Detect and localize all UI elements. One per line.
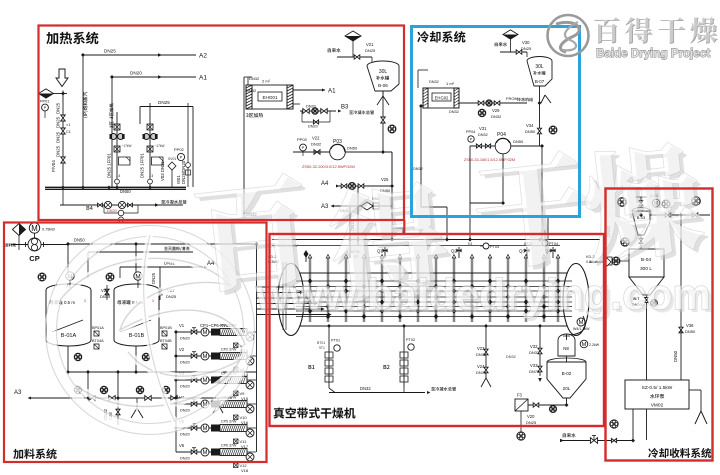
feed inlet rod xyxy=(283,250,309,330)
svg-text:PT01: PT01 xyxy=(331,339,340,343)
bank left bus xyxy=(175,332,177,452)
svg-text:V32: V32 xyxy=(530,344,538,349)
riser crossings into dryer xyxy=(350,206,392,258)
svg-text:DN25: DN25 xyxy=(104,49,116,54)
svg-text:DN32: DN32 xyxy=(246,88,257,93)
riser x109 xyxy=(111,77,113,187)
branch B1 xyxy=(309,326,341,393)
title heating 加热系统 xyxy=(46,32,58,44)
svg-text:DN32: DN32 xyxy=(478,133,488,137)
svg-text:DN20: DN20 xyxy=(180,361,190,365)
hollow down arrow xyxy=(56,69,68,87)
heating right risers xyxy=(350,152,392,239)
svg-text:Q1: Q1 xyxy=(377,249,383,254)
svg-text:DN50: DN50 xyxy=(347,146,358,151)
valve column x63 xyxy=(51,91,71,188)
svg-text:DN50: DN50 xyxy=(74,238,85,243)
Y vent feed xyxy=(213,398,223,413)
B-04 bottom xyxy=(632,295,658,440)
svg-text:E4: E4 xyxy=(468,242,472,246)
valve V29 xyxy=(478,108,502,119)
dryer drain line xyxy=(329,386,456,394)
svg-text:C1: C1 xyxy=(66,130,71,134)
metering pump row CP5 xyxy=(176,419,256,449)
svg-text:V24: V24 xyxy=(477,364,485,369)
svg-text:A3: A3 xyxy=(14,390,22,396)
svg-text:PT03: PT03 xyxy=(490,245,499,249)
svg-text:DN20: DN20 xyxy=(180,385,190,389)
label (IP)饱和蒸汽 vertical xyxy=(83,92,88,118)
svg-text:3: 3 xyxy=(152,299,154,303)
drum top instrument labels xyxy=(351,240,558,259)
svg-text:PP02: PP02 xyxy=(174,147,185,152)
svg-text:BT01: BT01 xyxy=(317,341,325,345)
svg-text:BP01A: BP01A xyxy=(92,326,104,330)
dryer top manifold lines xyxy=(272,240,600,246)
svg-text:DN25: DN25 xyxy=(365,48,376,53)
svg-text:CP: CP xyxy=(29,254,39,263)
svg-text:VM02: VM02 xyxy=(651,403,664,409)
valve V36 xyxy=(673,323,696,380)
svg-text:V30: V30 xyxy=(522,40,530,45)
svg-text:DN32: DN32 xyxy=(491,114,502,119)
svg-text:DN32: DN32 xyxy=(429,80,439,84)
riser x83 xyxy=(82,55,84,187)
svg-text:30L: 30L xyxy=(535,64,544,70)
discharge arc to N8 xyxy=(570,316,585,335)
metering pump row CP1 xyxy=(176,323,256,353)
heating-dryer red connector stub xyxy=(403,220,405,235)
svg-text:CP2 37W: CP2 37W xyxy=(221,348,237,352)
tank B-01A xyxy=(38,272,91,346)
svg-text:P04: P04 xyxy=(497,132,506,138)
svg-text:×1: ×1 xyxy=(66,123,70,127)
svg-text:P: P xyxy=(180,155,183,160)
svg-text:M: M xyxy=(582,342,587,348)
svg-text:M: M xyxy=(203,450,208,456)
drum motor xyxy=(573,318,590,331)
svg-text:DN25 1FP01: DN25 1FP01 xyxy=(107,153,112,178)
svg-text:DN25: DN25 xyxy=(56,131,61,143)
tank B drain xyxy=(136,346,150,372)
watermark emblem circle xyxy=(46,226,255,435)
tank A drain xyxy=(68,346,82,372)
svg-text:DN20: DN20 xyxy=(180,433,190,437)
svg-text:DN25 1FP01: DN25 1FP01 xyxy=(140,153,145,178)
metering pump row CP4 xyxy=(176,395,256,425)
EHG02 heat exchanger xyxy=(423,80,459,114)
svg-text:W4/1.1kW: W4/1.1kW xyxy=(573,327,590,331)
svg-text:V20: V20 xyxy=(527,414,535,419)
svg-text:A1: A1 xyxy=(328,88,336,95)
EHG02 piping xyxy=(413,70,447,239)
svg-text:DN25: DN25 xyxy=(521,46,532,51)
svg-text:PP04: PP04 xyxy=(466,130,475,134)
EHG01 heat exchanger xyxy=(246,79,293,118)
cooling system box xyxy=(412,27,580,217)
svg-text:DN50: DN50 xyxy=(120,189,131,194)
loop B3 xyxy=(293,104,374,129)
B-03 top fittings xyxy=(618,194,701,208)
gauge PP03 and valve V22 xyxy=(297,136,322,157)
feeding system box xyxy=(4,223,267,463)
hopper B-02 xyxy=(547,356,586,403)
svg-text:BP01B: BP01B xyxy=(160,326,172,330)
gap fitting to B-04 xyxy=(589,258,611,266)
svg-text:BT04B: BT04B xyxy=(160,339,172,343)
metering pump row CP3 xyxy=(176,371,256,401)
svg-text:V34: V34 xyxy=(526,123,534,128)
drum stems Q1-Q4 xyxy=(377,247,556,258)
A3 line heating xyxy=(321,197,392,213)
svg-text:M: M xyxy=(135,273,140,280)
steam supply diamond PP01 xyxy=(39,89,68,118)
svg-text:ZS50-33-160/1.5/12.5MP/32M: ZS50-33-160/1.5/12.5MP/32M xyxy=(464,158,515,162)
pipe A1 from EHG01 xyxy=(293,88,336,95)
svg-text:B-06: B-06 xyxy=(378,83,388,88)
svg-text:DN20: DN20 xyxy=(180,457,190,461)
title receiving 冷却收料系统 xyxy=(648,448,658,458)
A4 line heating xyxy=(321,177,392,193)
logo wordmark 百得干燥 xyxy=(594,17,619,43)
tank B-01B xyxy=(106,272,159,346)
svg-text:SZ-0.5/ 1.5kW: SZ-0.5/ 1.5kW xyxy=(642,385,673,391)
title cooling 冷却系统 xyxy=(417,31,429,43)
svg-text:EHG02: EHG02 xyxy=(435,96,449,101)
heater group 2 xyxy=(140,103,165,187)
A3 feed line xyxy=(14,386,232,400)
bank right bus xyxy=(256,242,258,452)
feed bottom manifold xyxy=(68,372,257,398)
cooling risers to dryer xyxy=(470,146,542,239)
cyclone B-03 xyxy=(632,197,650,235)
tank B-06 xyxy=(367,61,399,125)
drain line B4 xyxy=(60,189,187,222)
svg-text:DN25: DN25 xyxy=(56,102,61,114)
svg-text:~17kW: ~17kW xyxy=(122,144,132,148)
svg-text:Baide Drying Project: Baide Drying Project xyxy=(596,46,710,60)
svg-text:DN75: DN75 xyxy=(476,370,487,375)
svg-text:DN32: DN32 xyxy=(360,386,371,391)
tank A sensors xyxy=(92,326,104,349)
svg-text:9T1: 9T1 xyxy=(319,346,325,350)
feed main DN50 xyxy=(68,238,257,279)
valve V27 column xyxy=(151,267,177,300)
svg-text:DN20: DN20 xyxy=(306,105,316,109)
svg-text:F3: F3 xyxy=(517,393,523,398)
svg-text:0.5 m: 0.5 m xyxy=(64,300,75,305)
svg-text:DN32: DN32 xyxy=(529,350,540,355)
sub-loop DN25 header xyxy=(140,100,193,187)
svg-text:www.baidedrying.com: www.baidedrying.com xyxy=(255,271,711,319)
discharge line V20 xyxy=(505,403,567,440)
line FROM 冷冻机组 xyxy=(459,96,533,106)
vacuum drum xyxy=(278,264,589,336)
metering pump row CP6 xyxy=(176,443,256,473)
svg-text:0.75kW: 0.75kW xyxy=(42,228,55,232)
filter F3 xyxy=(515,393,528,412)
pipe DN25 to A2 xyxy=(83,49,207,60)
svg-text:B-01A: B-01A xyxy=(61,333,77,339)
svg-text:DN50: DN50 xyxy=(685,329,696,334)
svg-text:DN32: DN32 xyxy=(413,167,423,171)
svg-text:20L: 20L xyxy=(563,386,571,391)
svg-text:V29: V29 xyxy=(492,108,500,113)
B-06 outlet valves xyxy=(381,117,396,152)
dryer box xyxy=(270,234,605,426)
valve V34 xyxy=(525,123,557,134)
svg-text:FROM: FROM xyxy=(506,96,518,101)
svg-text:A2: A2 xyxy=(199,53,207,60)
svg-text:M: M xyxy=(203,426,208,432)
svg-text:DN20: DN20 xyxy=(180,409,190,413)
svg-text:DN25: DN25 xyxy=(151,272,156,284)
receiving top line xyxy=(650,213,710,330)
heating system box xyxy=(39,26,405,221)
svg-text:CP5 37W: CP5 37W xyxy=(221,420,237,424)
svg-text:CP6 37W: CP6 37W xyxy=(221,444,237,448)
svg-text:B-04: B-04 xyxy=(641,257,651,263)
metering pump row CP2 xyxy=(176,347,256,377)
drum rods xyxy=(308,255,561,323)
gauge PP02 cluster xyxy=(160,103,191,187)
svg-text:DN32: DN32 xyxy=(311,142,322,147)
tank B sensors xyxy=(160,326,172,349)
svg-text:DN25: DN25 xyxy=(166,294,177,299)
svg-text:N8: N8 xyxy=(563,346,569,351)
svg-text:P03: P03 xyxy=(333,139,342,145)
pump P04 xyxy=(466,126,542,154)
vacuum pump VM02 xyxy=(625,380,689,409)
svg-text:BT04A: BT04A xyxy=(92,339,104,343)
svg-text:A4: A4 xyxy=(321,181,329,187)
svg-text:~17kW: ~17kW xyxy=(155,144,165,148)
branch V23 V24 xyxy=(476,326,491,387)
tank B-07 vent Y xyxy=(541,95,551,103)
branch B2 xyxy=(384,326,416,393)
receiving system box xyxy=(606,189,713,461)
svg-text:DN32: DN32 xyxy=(476,352,487,357)
feed pump CP xyxy=(5,223,68,263)
V28 vent column xyxy=(103,398,143,425)
svg-text:P: P xyxy=(302,145,305,150)
svg-text:M: M xyxy=(203,354,208,360)
VM02 vent Y xyxy=(689,390,707,432)
svg-text:DN32: DN32 xyxy=(506,355,516,359)
svg-text:B-01B: B-01B xyxy=(129,333,145,339)
svg-text:P: P xyxy=(44,105,47,110)
pipe DN20 to A1 xyxy=(112,71,207,82)
svg-text:DN20: DN20 xyxy=(308,125,318,129)
tank B-06 vent Y xyxy=(377,91,389,105)
svg-text:DN25: DN25 xyxy=(56,116,61,128)
svg-text:V1: V1 xyxy=(179,323,185,328)
svg-text:SV01: SV01 xyxy=(168,157,176,161)
svg-text:V25: V25 xyxy=(381,177,389,182)
watermark giant characters xyxy=(193,130,711,321)
svg-text:PT04: PT04 xyxy=(549,242,558,246)
pump P03 xyxy=(293,139,392,160)
svg-text:M: M xyxy=(31,224,38,233)
svg-text:PP01: PP01 xyxy=(40,100,49,104)
branch 至灭菌柜/清洗 xyxy=(88,247,193,278)
title feeding 加料系统 xyxy=(13,449,23,459)
svg-text:- 4: - 4 xyxy=(116,174,120,178)
label 3区加热 vertical xyxy=(109,103,113,128)
svg-text:DN20: DN20 xyxy=(107,209,117,213)
svg-text:3: 3 xyxy=(84,299,86,303)
svg-text:DN50: DN50 xyxy=(513,139,524,144)
svg-text:Q2: Q2 xyxy=(451,249,457,254)
svg-text:PT02: PT02 xyxy=(406,338,415,342)
svg-text:Q3: Q3 xyxy=(519,249,525,254)
svg-text:V22: V22 xyxy=(312,136,320,141)
svg-text:PP03: PP03 xyxy=(297,137,308,142)
heater group 1 xyxy=(107,112,132,187)
svg-text:DN20: DN20 xyxy=(130,71,142,76)
svg-text:V03 DN25: V03 DN25 xyxy=(160,161,165,181)
svg-text:V33: V33 xyxy=(530,363,538,368)
svg-text:V2: V2 xyxy=(179,347,185,352)
svg-text:B-02: B-02 xyxy=(562,371,572,376)
drum labels top-left xyxy=(268,244,298,264)
svg-text:EHG01: EHG01 xyxy=(262,95,278,100)
svg-text:1 m²: 1 m² xyxy=(446,81,455,86)
svg-text:DN32: DN32 xyxy=(249,76,260,81)
B-04 sight glass xyxy=(607,257,629,265)
branch V32 V33 xyxy=(506,326,542,382)
svg-text:DN50: DN50 xyxy=(673,350,678,362)
drum feed arrows xyxy=(256,285,332,316)
branch A4 feed xyxy=(120,261,215,279)
svg-text:P/V04: P/V04 xyxy=(51,160,56,172)
gap DN32 label and elbow xyxy=(350,219,403,234)
logo emblem xyxy=(548,15,589,56)
svg-text:A3: A3 xyxy=(321,204,329,210)
svg-text:DN25: DN25 xyxy=(526,420,537,425)
bus bar header xyxy=(45,187,186,189)
svg-text:V21: V21 xyxy=(366,42,374,47)
svg-text:DN50: DN50 xyxy=(525,129,536,134)
svg-text:M: M xyxy=(203,330,208,336)
cooling supply diamond 自来水 xyxy=(495,30,532,57)
svg-text:V31: V31 xyxy=(479,126,487,131)
B-03 to B-04 xyxy=(606,225,643,249)
tank B-06 supply 自来水 xyxy=(328,31,376,62)
tank B-07 xyxy=(527,57,552,147)
svg-text:- 3: - 3 xyxy=(149,174,153,178)
svg-text:V6: V6 xyxy=(179,443,185,448)
svg-text:ZS50-32-200/3.0/12.5WP/32M: ZS50-32-200/3.0/12.5WP/32M xyxy=(302,164,355,169)
svg-text:V18: V18 xyxy=(241,468,249,473)
svg-text:30L: 30L xyxy=(379,69,388,75)
valve V26 xyxy=(100,285,111,300)
svg-text:DN32: DN32 xyxy=(449,110,459,114)
tank B-04 xyxy=(629,249,664,295)
svg-text:DN75: DN75 xyxy=(529,369,540,374)
riser from A3 to dryer xyxy=(333,205,335,207)
svg-text:V23: V23 xyxy=(477,346,485,351)
svg-text:B-07: B-07 xyxy=(535,79,545,84)
drum labels top-right xyxy=(586,255,597,264)
svg-text:2.2kW: 2.2kW xyxy=(589,343,600,347)
svg-text:DN20: DN20 xyxy=(180,337,190,341)
svg-text:DN25: DN25 xyxy=(158,100,170,105)
riser x548 xyxy=(547,218,549,239)
svg-text:V36: V36 xyxy=(686,323,694,328)
svg-text:2 m²: 2 m² xyxy=(262,79,271,84)
tap water inlet xyxy=(560,409,633,443)
svg-text:B3: B3 xyxy=(341,105,349,111)
vessel N8 xyxy=(558,334,600,356)
svg-text:A1: A1 xyxy=(199,75,207,82)
svg-text:M: M xyxy=(203,378,208,384)
title dryer 真空带式干燥机 xyxy=(274,407,285,418)
svg-text:DN25: DN25 xyxy=(56,145,61,157)
EHG01 piping left xyxy=(244,76,260,217)
